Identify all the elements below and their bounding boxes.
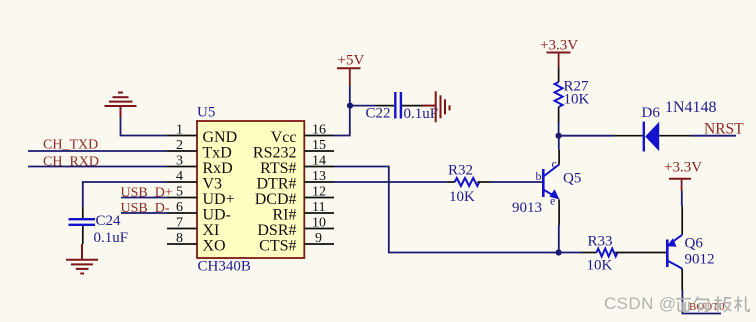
- diode D6 value 1N4148: [665, 99, 717, 116]
- svg-text:RxD: RxD: [203, 160, 233, 177]
- pin 8 number: [176, 231, 183, 246]
- wire CH_TXD to pin 2: [28, 150, 167, 152]
- svg-text:CSDN @: CSDN @: [604, 294, 677, 313]
- pin name RI#: [273, 207, 297, 224]
- net label USB_D+: [121, 186, 173, 201]
- capacitor C24 pin bottom: [82, 226, 84, 244]
- ground symbol below C24: [66, 244, 98, 274]
- svg-text:Q6: Q6: [685, 236, 704, 252]
- wire USB_D- to pin 6: [121, 212, 167, 214]
- pin name CTS#: [259, 238, 296, 255]
- transistor Q5 9013: [543, 165, 559, 200]
- resistor R32 designator: [448, 163, 473, 179]
- svg-text:CH340B: CH340B: [198, 259, 251, 275]
- resistor R33 value 10K: [587, 258, 613, 274]
- svg-text:4: 4: [176, 169, 183, 184]
- wire junction to R33: [559, 252, 581, 254]
- pin 9 number: [315, 231, 322, 246]
- svg-text:16: 16: [312, 123, 326, 138]
- pin name Vcc: [271, 129, 297, 146]
- svg-text:10K: 10K: [564, 92, 590, 108]
- pin 14 stub: [304, 166, 334, 168]
- pin 10 stub: [304, 228, 334, 230]
- resistor R27 pin top: [558, 68, 560, 83]
- svg-text:10: 10: [312, 216, 326, 231]
- svg-text:+5V: +5V: [338, 53, 365, 69]
- pin 12 number: [312, 185, 326, 200]
- pin 6 stub: [167, 212, 197, 214]
- pin 15 stub: [304, 150, 334, 152]
- pin 10 number: [312, 216, 326, 231]
- pin name UD-: [203, 207, 231, 224]
- resistor R32 pin left: [447, 181, 455, 183]
- transistor Q6 9012: [667, 235, 682, 269]
- svg-text:V3: V3: [203, 176, 223, 193]
- pin 2 number: [176, 138, 183, 153]
- svg-text:6: 6: [176, 200, 183, 215]
- power +3.3V symbol above R27: [540, 38, 578, 68]
- op-amp U5 chip body CH340B: [197, 121, 304, 258]
- transistor Q6 value 9012: [685, 252, 715, 268]
- wire CH_RXD to pin 3: [28, 166, 167, 168]
- pin 11 stub: [304, 212, 334, 214]
- svg-text:10K: 10K: [587, 258, 613, 274]
- pin 1 number: [176, 123, 183, 138]
- CH340B value label: [198, 259, 251, 275]
- svg-text:13: 13: [312, 169, 326, 184]
- svg-text:U5: U5: [197, 105, 215, 121]
- net label NRST: [704, 121, 744, 138]
- resistor R32 pin right: [477, 181, 492, 183]
- capacitor C24 plates: [69, 219, 96, 225]
- pin name RS232: [253, 145, 297, 162]
- capacitor C24 value 0.1uF: [94, 230, 129, 246]
- transistor Q5 designator: [563, 171, 581, 187]
- svg-text:0.1uF: 0.1uF: [94, 230, 129, 246]
- pin name DSR#: [257, 222, 296, 239]
- wire R32 to Q5 base: [492, 181, 543, 183]
- svg-text:Vcc: Vcc: [271, 129, 297, 146]
- pin name DCD#: [255, 191, 297, 208]
- svg-text:c: c: [552, 157, 557, 171]
- svg-text:RS232: RS232: [253, 145, 297, 162]
- resistor R27 value 10K: [564, 92, 590, 108]
- svg-text:+3.3V: +3.3V: [540, 38, 578, 54]
- svg-text:CTS#: CTS#: [259, 238, 296, 255]
- U5 designator label: [197, 105, 215, 121]
- resistor R27 pin bottom: [558, 107, 560, 122]
- capacitor C22 value 0.1uF: [404, 106, 439, 122]
- wire pin 13 DTR# to R32: [334, 181, 447, 183]
- capacitor C24 pin top: [82, 207, 84, 218]
- watermark CSDN: [604, 294, 677, 313]
- transistor Q6 designator: [685, 236, 704, 252]
- net label CH_TXD: [43, 138, 98, 153]
- wire pin 14 RTS# down to bottom rail: [334, 167, 559, 253]
- wire Q5 emitter to bottom rail: [558, 225, 560, 253]
- resistor R27 zigzag: [555, 82, 563, 107]
- net label CH_RXD: [43, 155, 99, 170]
- svg-text:14: 14: [312, 154, 326, 169]
- transistor Q6 emitter pin: [681, 206, 683, 235]
- svg-text:NRST: NRST: [704, 121, 744, 138]
- transistor Q6 collector pin: [681, 269, 683, 290]
- svg-text:8: 8: [176, 231, 183, 246]
- svg-text:2: 2: [176, 138, 183, 153]
- watermark chinese glyph 4: [734, 296, 749, 311]
- pin name GND: [203, 129, 238, 146]
- pin name V3: [203, 176, 223, 193]
- wire pin 4 V3 to C24: [83, 182, 167, 207]
- svg-text:RTS#: RTS#: [260, 160, 296, 177]
- resistor R32 value 10K: [449, 189, 475, 205]
- watermark chinese glyph 3: [714, 296, 731, 312]
- capacitor C24 designator: [96, 213, 122, 229]
- resistor R33 pin right / wire to Q6 base: [615, 252, 667, 254]
- pin 1 stub: [167, 135, 197, 137]
- svg-text:XI: XI: [203, 222, 220, 239]
- svg-text:TxD: TxD: [203, 145, 232, 162]
- diode D6 pin left: [614, 135, 644, 137]
- pin name XO: [203, 238, 226, 255]
- capacitor C22 pin left: [376, 105, 394, 107]
- resistor R27 designator: [564, 79, 590, 95]
- resistor R33 designator: [588, 234, 613, 250]
- power +3.3V symbol above Q6: [664, 160, 702, 192]
- pin 16 number: [312, 123, 326, 138]
- pin name DTR#: [257, 176, 297, 193]
- pin 13 stub: [304, 181, 334, 183]
- pin 12 stub: [304, 197, 334, 199]
- svg-text:R33: R33: [588, 234, 613, 250]
- pin 3 number: [176, 154, 183, 169]
- pin name XI: [203, 222, 220, 239]
- svg-text:GND: GND: [203, 129, 238, 146]
- pin 5 stub: [167, 197, 197, 199]
- pin 16 stub: [304, 135, 334, 137]
- pin 9 stub: [304, 243, 334, 245]
- svg-text:0.1uF: 0.1uF: [404, 106, 439, 122]
- svg-text:15: 15: [312, 138, 326, 153]
- svg-text:5: 5: [176, 185, 183, 200]
- pin name RTS#: [260, 160, 296, 177]
- svg-text:UD+: UD+: [203, 191, 235, 208]
- diode D6 symbol 1N4148: [644, 122, 659, 152]
- svg-text:R32: R32: [448, 163, 473, 179]
- wire junction to diode D6: [559, 135, 614, 137]
- net label BOOT0: [689, 301, 725, 313]
- pin 4 stub: [167, 181, 197, 183]
- pin 7 stub: [167, 228, 197, 230]
- pin name UD+: [203, 191, 235, 208]
- power +5V symbol: [337, 53, 364, 87]
- wire +3.3V to Q6 emitter: [681, 191, 683, 206]
- svg-text:b: b: [536, 169, 542, 183]
- wire junction to C22: [350, 105, 376, 107]
- svg-text:C24: C24: [96, 213, 122, 229]
- pin 2 stub: [167, 150, 197, 152]
- wire Q6 collector down to BOOT0: [682, 290, 721, 314]
- transistor Q5 pin labels b c e: [536, 157, 557, 208]
- svg-text:1N4148: 1N4148: [665, 99, 717, 116]
- pin name RxD: [203, 160, 233, 177]
- svg-text:7: 7: [176, 216, 183, 231]
- wire to NRST: [691, 135, 736, 137]
- pin 5 number: [176, 185, 183, 200]
- ground symbol top-left: [105, 93, 137, 118]
- pin 6 number: [176, 200, 183, 215]
- pin 11 number: [312, 200, 325, 215]
- wire +5V to pin 16: [334, 86, 350, 136]
- svg-text:e: e: [550, 194, 555, 208]
- pin name TxD: [203, 145, 232, 162]
- svg-text:+3.3V: +3.3V: [664, 160, 702, 176]
- svg-text:D6: D6: [642, 105, 661, 121]
- svg-text:C22: C22: [366, 106, 391, 122]
- capacitor C22 designator: [366, 106, 391, 122]
- pin 14 number: [312, 154, 326, 169]
- resistor R33 zigzag: [597, 249, 618, 257]
- ground symbol right of C22: [423, 91, 450, 122]
- svg-text:XO: XO: [203, 238, 226, 255]
- capacitor C22 plates: [395, 92, 401, 119]
- node junction at +5V / C22: [347, 103, 353, 109]
- svg-text:DSR#: DSR#: [257, 222, 296, 239]
- pin 15 number: [312, 138, 326, 153]
- resistor R33 pin left: [581, 252, 597, 254]
- transistor Q5 collector pin: [558, 150, 560, 165]
- node junction NRST: [556, 133, 562, 139]
- node junction bottom rail: [556, 249, 562, 255]
- svg-text:9013: 9013: [512, 200, 542, 216]
- svg-text:9: 9: [315, 231, 322, 246]
- svg-text:3: 3: [176, 154, 183, 169]
- capacitor C22 pin right: [402, 105, 423, 107]
- svg-text:DTR#: DTR#: [257, 176, 297, 193]
- svg-text:DCD#: DCD#: [255, 191, 297, 208]
- watermark chinese glyph 2: [694, 297, 708, 313]
- resistor R32 zigzag: [455, 178, 480, 186]
- svg-text:9012: 9012: [685, 252, 715, 268]
- pin 7 number: [176, 216, 183, 231]
- wire ground to pin 1: [121, 117, 168, 136]
- wire USB_D+ to pin 5: [121, 197, 167, 199]
- pin 4 number: [176, 169, 183, 184]
- pin 13 number: [312, 169, 326, 184]
- svg-text:RI#: RI#: [273, 207, 297, 224]
- svg-text:UD-: UD-: [203, 207, 231, 224]
- pin 3 stub: [167, 166, 197, 168]
- wire Q5 collector to junction: [558, 136, 560, 150]
- svg-text:1: 1: [176, 123, 183, 138]
- net label USB_D-: [121, 201, 170, 216]
- wire R27 to junction: [558, 122, 560, 136]
- svg-text:11: 11: [312, 200, 325, 215]
- watermark chinese glyph 1: [676, 299, 691, 311]
- transistor Q5 emitter pin: [558, 200, 560, 226]
- pin 8 stub: [167, 243, 197, 245]
- svg-text:Q5: Q5: [563, 171, 581, 187]
- svg-text:10K: 10K: [449, 189, 475, 205]
- diode D6 pin right: [659, 135, 691, 137]
- transistor Q5 value 9013: [512, 200, 542, 216]
- svg-text:12: 12: [312, 185, 326, 200]
- diode D6 designator: [642, 105, 661, 121]
